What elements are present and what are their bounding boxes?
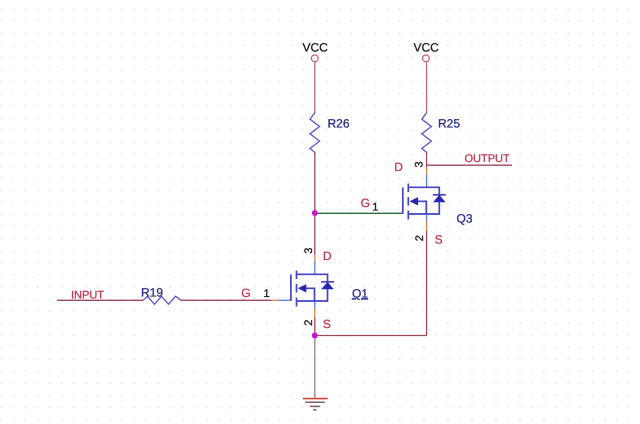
svg-text:3: 3	[414, 161, 426, 167]
svg-text:1: 1	[264, 288, 270, 300]
svg-text:R25: R25	[438, 117, 460, 131]
svg-text:Q3: Q3	[457, 212, 473, 226]
svg-text:R26: R26	[328, 117, 350, 131]
svg-text:2: 2	[303, 320, 315, 326]
svg-text:R19: R19	[141, 286, 163, 300]
svg-text:VCC: VCC	[303, 40, 329, 54]
svg-text:D: D	[394, 160, 403, 174]
svg-text:OUTPUT: OUTPUT	[465, 153, 511, 165]
svg-text:1: 1	[372, 202, 378, 214]
svg-text:G: G	[241, 286, 250, 300]
svg-text:D: D	[323, 249, 332, 263]
svg-text:S: S	[323, 317, 331, 331]
svg-text:INPUT: INPUT	[71, 289, 104, 301]
svg-text:G: G	[361, 196, 370, 210]
svg-text:3: 3	[303, 248, 315, 254]
svg-text:VCC: VCC	[414, 40, 440, 54]
svg-text:2: 2	[414, 235, 426, 241]
svg-text:Q1: Q1	[352, 286, 368, 300]
svg-text:S: S	[435, 233, 443, 247]
